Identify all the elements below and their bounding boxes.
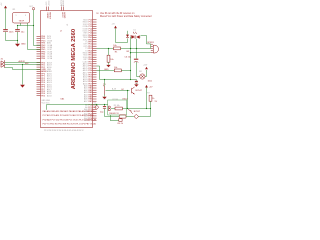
wire LED left lead down <box>130 37 133 49</box>
svg-text:10k: 10k <box>114 67 118 69</box>
resistor R3 vertical body <box>107 55 110 62</box>
svg-text:PD7 T0 PG1 RD PG0 WR PL0 ICP4: PD7 T0 PG1 RD PG0 WR PL0 ICP4 PL1 ICP5 P… <box>43 123 97 126</box>
wire IC pin to cap net <box>97 66 137 80</box>
wire jack tip <box>5 62 41 64</box>
wire R6 right <box>126 116 134 118</box>
svg-text:BZ: BZ <box>127 51 130 53</box>
IC U1 left pin ticks group1 <box>37 36 41 58</box>
svg-text:D1: D1 <box>134 30 136 32</box>
IC U1 left pin ticks group2 <box>37 63 41 96</box>
svg-text:OSC2: OSC2 <box>122 98 128 100</box>
transistor Q1 body bar <box>104 87 106 95</box>
wire X1 down to IC <box>34 10 41 46</box>
svg-text:Y1: Y1 <box>94 102 96 104</box>
svg-text:RELAY 5V: RELAY 5V <box>109 112 119 115</box>
LED D1 body <box>131 35 135 39</box>
svg-text:PE4PE5PG5PE3PH3PH4PH5PH6PB4PB5: PE4PE5PG5PE3PH3PH4PH5PH6PB4PB5PB6 <box>41 36 46 60</box>
module M2 pad 1 <box>109 106 111 108</box>
svg-text:2: 2 <box>60 31 62 33</box>
jack X2 contact 1 <box>1 61 4 64</box>
svg-text:filtered Vcc with Power and Da: filtered Vcc with Power and Data Safely … <box>100 15 152 18</box>
wire speaker right to vcc <box>145 70 147 77</box>
capacitor C2 plates <box>15 29 20 30</box>
wire bottom main from inside IC <box>47 105 108 110</box>
svg-text:IOREF: IOREF <box>46 12 48 19</box>
wire LED output to connector <box>141 36 151 49</box>
svg-text:MIC: MIC <box>25 63 29 65</box>
svg-text:22 24 26 28 30 32 34 36 38 40: 22 24 26 28 30 32 34 36 38 40 42 44 46 4… <box>44 130 83 132</box>
connector X3 body D <box>153 45 158 53</box>
diode D2 body <box>119 119 122 122</box>
svg-text:5V: 5V <box>155 101 158 103</box>
junction jack ground <box>22 64 23 65</box>
wire LED right lead down <box>137 37 141 49</box>
capacitor C3 plate2 <box>135 82 138 84</box>
svg-text:U1: U1 <box>67 24 69 26</box>
wire jack sleeve <box>5 68 41 70</box>
svg-text:R5 10k: R5 10k <box>114 105 120 107</box>
wire jack to ground <box>22 65 24 85</box>
power flag P2 top right <box>114 26 117 29</box>
transistor Q3 emitter <box>130 111 132 113</box>
svg-text:R7 1M: R7 1M <box>113 99 119 101</box>
svg-text:+5V: +5V <box>149 87 153 89</box>
wire R7 down <box>150 101 152 116</box>
capacitor C6 curved plate <box>134 61 138 62</box>
wire C4 branch upper <box>104 105 106 107</box>
diamond net DM1 <box>95 105 99 109</box>
capacitor C3 stub <box>136 80 138 85</box>
wire R1 right <box>121 48 151 50</box>
wire C2 top up <box>17 26 19 30</box>
wire R3 bottom <box>108 62 110 64</box>
LED D1 bar <box>134 35 136 39</box>
speaker LS2 circle <box>140 74 145 79</box>
svg-text:RESET: RESET <box>48 12 50 20</box>
junction buzzer branch <box>130 52 131 53</box>
wire lower tap <box>110 115 118 121</box>
power flag +5V P1 <box>4 6 7 9</box>
svg-text:+5V: +5V <box>112 24 116 26</box>
junction LED right <box>136 48 137 49</box>
module M2 pad 2 <box>109 109 111 111</box>
IC U1 top pin ticks <box>47 7 64 11</box>
junction R5 right <box>146 108 147 109</box>
svg-text:R6 1k: R6 1k <box>118 123 124 125</box>
svg-text:5V: 5V <box>96 13 99 15</box>
svg-text:PC7 A15 PC6 A14 PC5 A13 PC4 A1: PC7 A15 PC6 A14 PC5 A13 PC4 A12 PC3 A11 … <box>43 114 95 117</box>
svg-text:X1: X1 <box>1 58 4 60</box>
transistor Q2 collector <box>132 87 135 94</box>
svg-text:XT: XT <box>104 99 107 101</box>
speaker LS2 cross <box>141 75 145 79</box>
wire IR1 supply horizontal <box>18 25 34 27</box>
svg-text:100n: 100n <box>9 31 14 33</box>
svg-text:OC: OC <box>121 89 125 91</box>
wire main2 from module <box>127 108 147 110</box>
wire speaker net lower <box>131 49 151 53</box>
capacitor C6 plate1 <box>134 59 138 60</box>
wire buzzer branch down <box>130 53 132 80</box>
wire P2 down and right <box>116 28 128 42</box>
junction base net main2 <box>127 108 128 109</box>
transistor Q2 emitter arrow <box>133 93 135 95</box>
IC U1 right pin ticks <box>93 20 97 121</box>
svg-text:+12V: +12V <box>143 65 148 67</box>
capacitor C4 plate bottom <box>103 107 106 109</box>
transistor Q1 top hook <box>103 85 104 87</box>
junction bottom caps <box>17 40 18 41</box>
IR receiver IR1 body <box>13 13 30 24</box>
svg-text:1: 1 <box>16 15 17 17</box>
diamond DM1 stub <box>96 105 98 106</box>
diode Z1 body <box>126 35 129 38</box>
module M2 internal lead right <box>122 108 126 110</box>
ground GND3 <box>134 84 138 86</box>
svg-text:+3V30: +3V30 <box>48 1 50 6</box>
junction R7 branch <box>150 108 151 109</box>
capacitor C1 plate2 <box>3 31 8 33</box>
svg-text:ADC8ADC9AD10GNDAREFADC0ADC1ADC: ADC8ADC9AD10GNDAREFADC0ADC1ADC2ADC3ADC4A… <box>47 61 53 97</box>
svg-text:M1: M1 <box>139 71 142 73</box>
resistor R6 body <box>119 115 126 118</box>
svg-text:T1: T1 <box>103 84 106 86</box>
wire main3 bottom <box>105 116 120 118</box>
svg-text:100n: 100n <box>148 81 153 83</box>
svg-text:BC547: BC547 <box>136 90 143 92</box>
svg-text:ARDUINO MEGA 2560: ARDUINO MEGA 2560 <box>71 29 77 89</box>
svg-text:22p: 22p <box>100 111 104 113</box>
svg-text:1k: 1k <box>152 98 155 100</box>
IC U1 box ARDUINO MEGA 2560 <box>41 11 93 128</box>
ground GND5 <box>102 97 106 99</box>
svg-text:TXD3RXD3XCK3OC3AOC3BOC3CINT6RX: TXD3RXD3XCK3OC3AOC3BOC3CINT6RXD2TXD2XCK2… <box>83 20 89 123</box>
junction IR supply right <box>33 25 34 26</box>
jack X2 body <box>4 60 6 68</box>
svg-text:+5V: +5V <box>1 2 3 6</box>
junction Q1 collector tap <box>104 79 105 80</box>
svg-text:TSOP: TSOP <box>19 21 25 23</box>
jack X2 contact 2 <box>1 64 4 67</box>
ground GND2 <box>20 85 25 88</box>
LED D1 body2 <box>136 35 140 39</box>
ground GND4 <box>106 65 110 67</box>
resistor R2 body <box>114 69 121 72</box>
transistor Q2 body <box>131 88 133 93</box>
svg-text:10u: 10u <box>21 31 24 33</box>
wire C1 to C2 bottom <box>6 40 18 42</box>
diode Z1 top stub <box>127 31 129 35</box>
junction R2 net <box>130 70 131 71</box>
svg-text:C6 10u: C6 10u <box>125 57 132 59</box>
wire DM2 right <box>139 116 151 118</box>
wire IR1 pin2 down long <box>28 23 41 50</box>
wire VCC to C1 <box>5 8 7 29</box>
wire IR1 pin1 down <box>20 23 22 26</box>
diamond DM2 <box>134 114 139 118</box>
wire R2 right <box>121 70 130 72</box>
wire jack ring <box>5 64 41 66</box>
junction DM1 tap <box>96 104 97 105</box>
svg-text:VCC VCC: VCC VCC <box>42 102 51 104</box>
capacitor C2 plate2 <box>15 31 20 33</box>
resistor R1 body <box>114 47 121 50</box>
wire base net down to main2 <box>127 91 129 109</box>
svg-text:SPKR1: SPKR1 <box>147 42 155 44</box>
wire C2 down to ground <box>17 32 19 44</box>
wire C1 down <box>5 32 7 41</box>
wire Q1 emitter down <box>104 94 106 96</box>
power flag P5 <box>145 85 148 88</box>
junction R1 net <box>108 48 109 49</box>
wire C4 branch lower <box>104 109 106 117</box>
junction IR supply left <box>17 25 18 26</box>
wire LED net down to cap <box>136 49 138 59</box>
wire speaker left <box>137 76 140 78</box>
svg-text:AGND: AGND <box>63 12 66 18</box>
wire P5 down <box>146 88 148 109</box>
svg-text:BC557: BC557 <box>134 111 141 113</box>
junction LED left <box>130 48 131 49</box>
wire R3 top <box>108 49 110 56</box>
capacitor C4 plate top <box>103 105 106 108</box>
svg-text:A_IN: A_IN <box>112 87 117 90</box>
wire resistor net mid <box>97 70 115 72</box>
power flag P4 <box>145 67 148 70</box>
wire Q1 base right <box>106 90 130 92</box>
svg-text:PG2 ALE PL7 D42 PL6 D43 PL5 OC: PG2 ALE PL7 D42 PL6 D43 PL5 OC5C PL4 OC5… <box>43 118 97 121</box>
junction cap net <box>130 79 131 80</box>
LED D1 arrows <box>133 32 136 34</box>
svg-text:PA0 AD0 PA1 AD1 PA2 AD2 PA3 AD: PA0 AD0 PA1 AD1 PA2 AD2 PA3 AD3 PA4 AD4 … <box>43 110 96 113</box>
capacitor C3 plates <box>135 81 138 82</box>
svg-text:IR1: IR1 <box>13 9 16 11</box>
ground GND1 <box>15 44 20 47</box>
diode Z1 bar <box>126 36 129 38</box>
module M2 green box <box>108 100 127 115</box>
module M2 internal lead left <box>111 108 115 110</box>
resistor R7 vertical body <box>149 95 152 101</box>
svg-text:3: 3 <box>25 15 26 17</box>
svg-text:INT4INT5OC0BAIN1OC4AOC4BOC4COC: INT4INT5OC0BAIN1OC4AOC4BOC4COC2BOC2AOC1B… <box>47 36 53 60</box>
pad X1 circle <box>32 8 34 10</box>
wire IC pin to LED net <box>97 48 114 50</box>
svg-text:U$1: U$1 <box>61 99 66 101</box>
transistor Q3 hang body <box>128 110 132 112</box>
connector X3 pin ticks <box>151 44 153 53</box>
wire main2 to R7 branch <box>147 108 151 110</box>
svg-text:Use IR out with the IR receive: Use IR out with the IR receiver on <box>100 12 135 15</box>
resistor R5 body <box>115 107 122 110</box>
wire Q1 collector <box>104 80 106 87</box>
junction bottom cap branch <box>104 104 105 105</box>
svg-text:GND: GND <box>21 43 26 45</box>
svg-text:GND: GND <box>104 69 109 71</box>
svg-text:R7: R7 <box>147 93 149 95</box>
junction base net <box>127 90 128 91</box>
svg-text:AGND0: AGND0 <box>62 0 65 6</box>
svg-text:10k: 10k <box>110 59 114 61</box>
svg-text:R1: R1 <box>115 51 118 53</box>
capacitor C1 plates <box>3 29 8 30</box>
wire cap to speaker row <box>136 62 138 77</box>
